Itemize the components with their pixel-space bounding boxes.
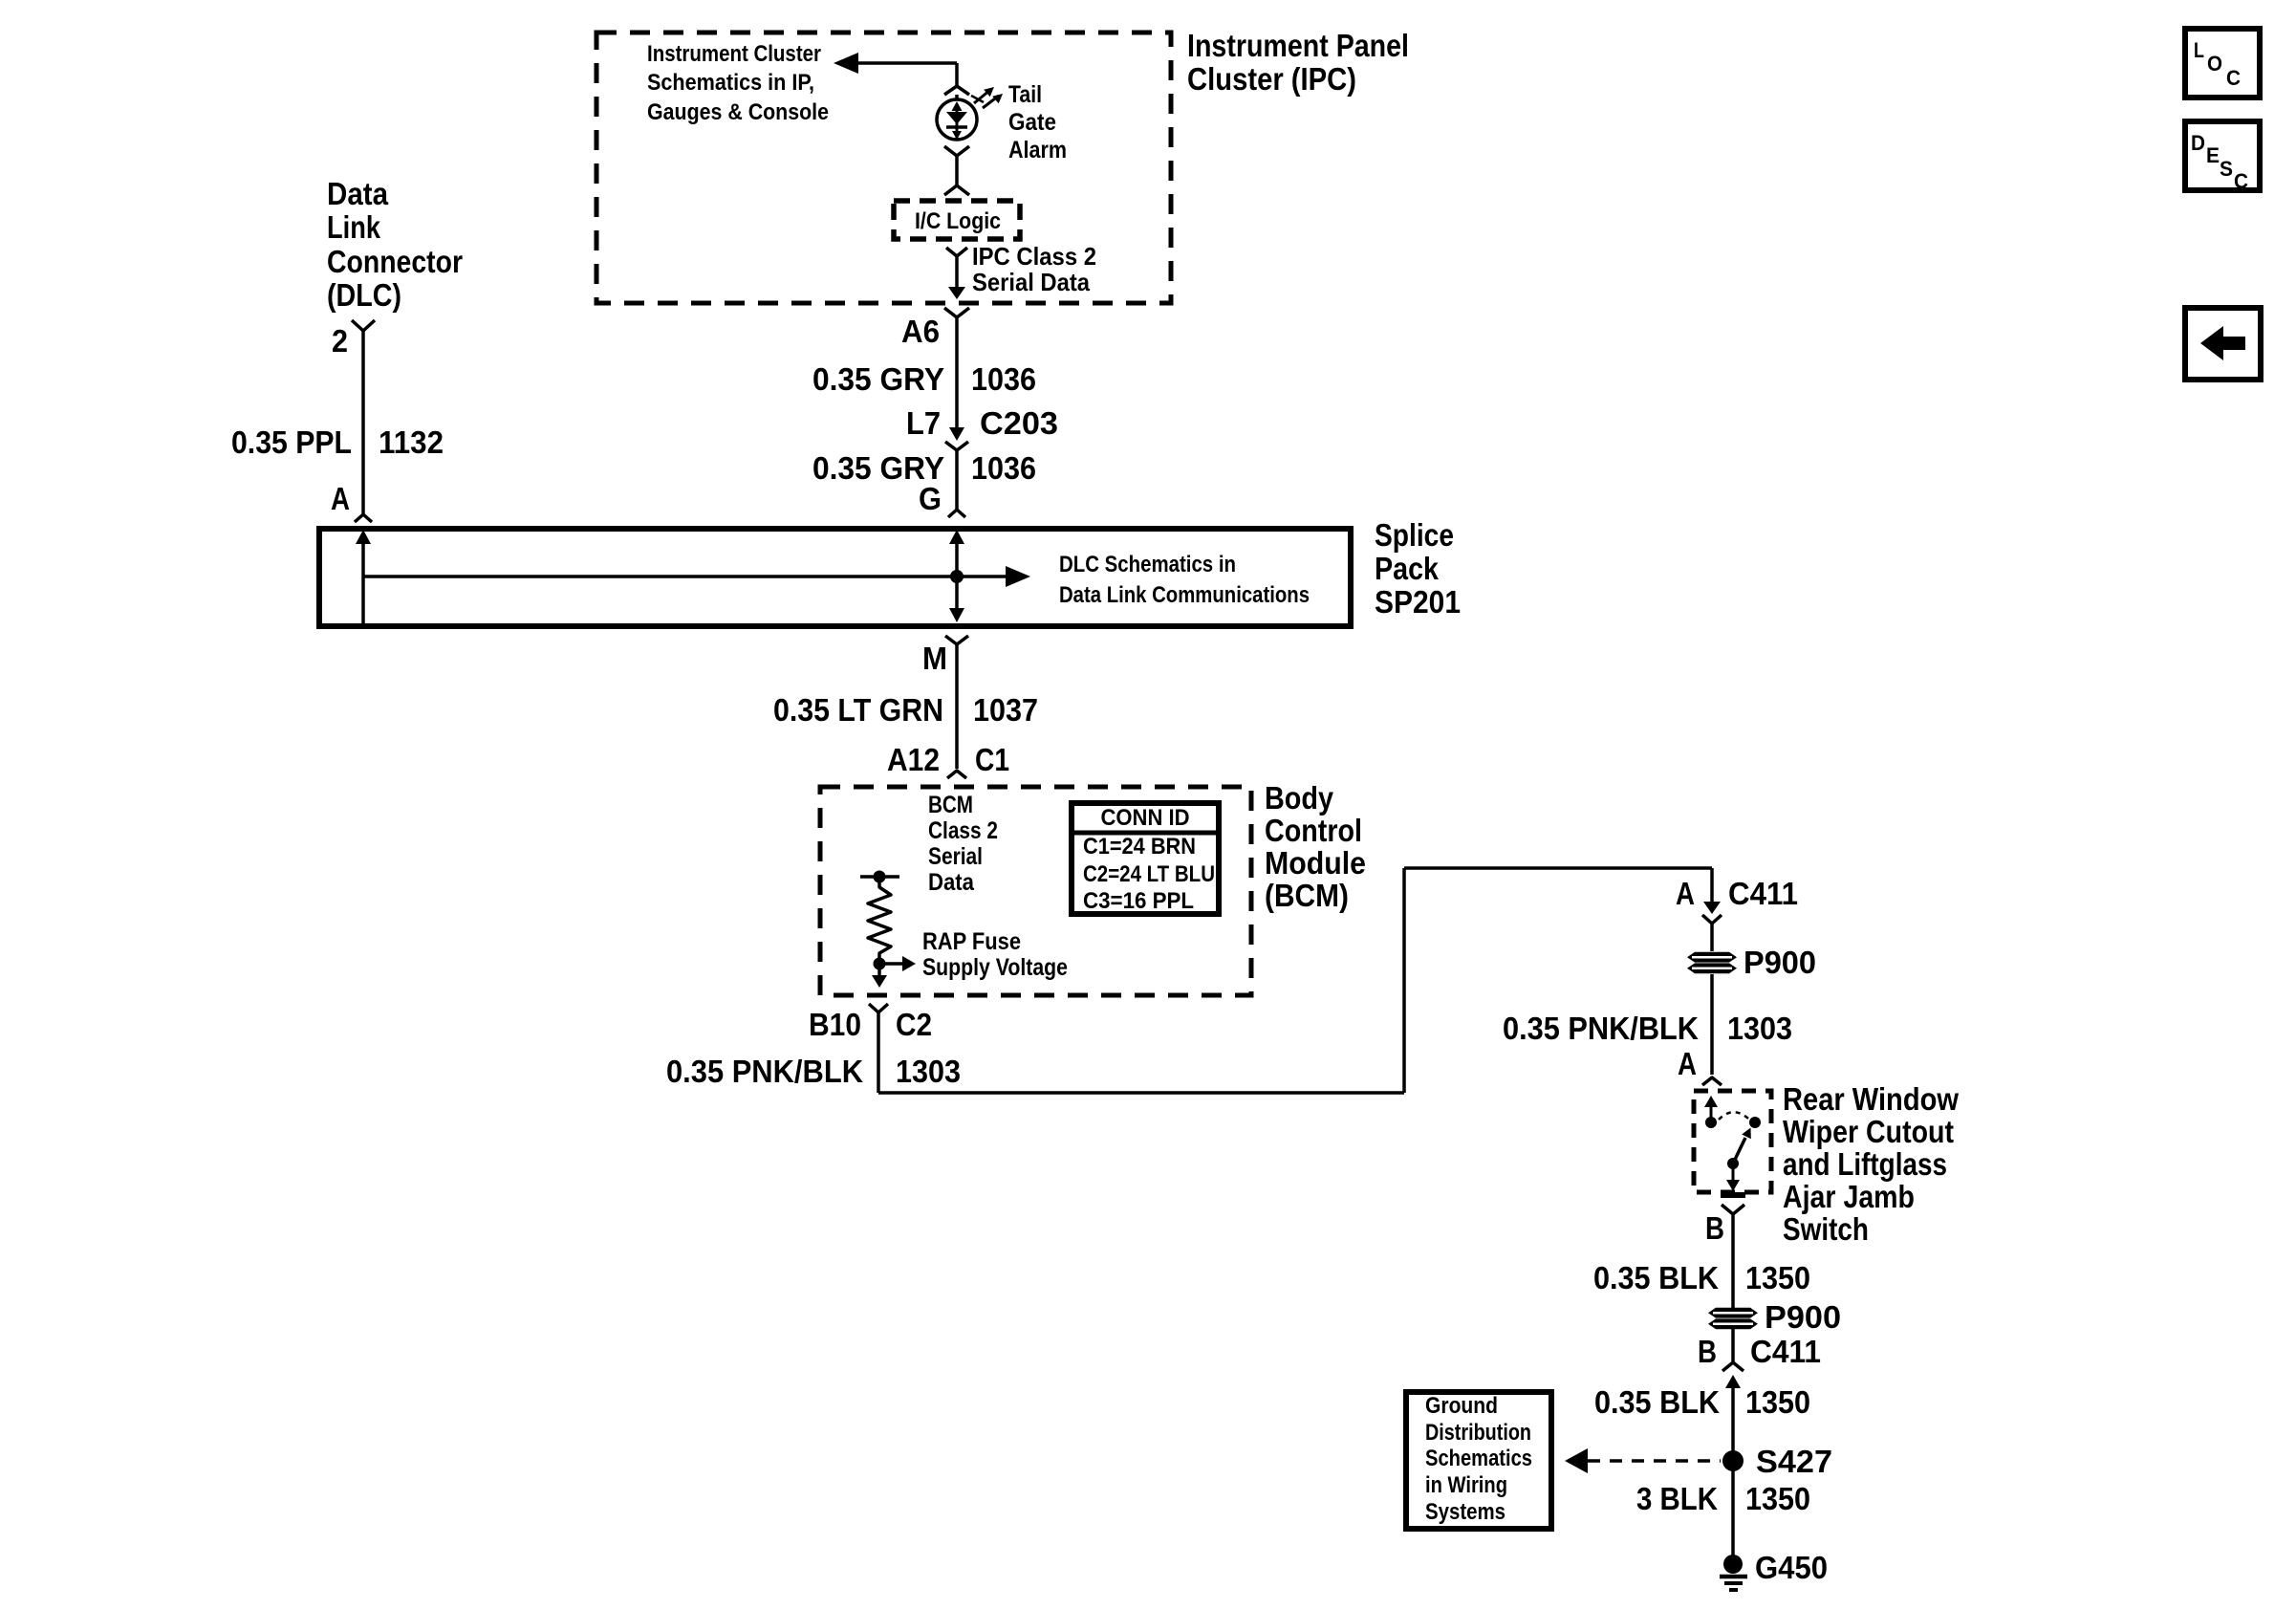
svg-text:C203: C203 [980, 405, 1058, 441]
svg-text:C: C [2234, 169, 2248, 193]
svg-text:Splice: Splice [1375, 517, 1454, 553]
svg-text:1303: 1303 [1727, 1011, 1792, 1046]
svg-text:DLC Schematics in: DLC Schematics in [1059, 552, 1236, 577]
svg-text:S: S [2220, 157, 2233, 181]
svg-text:1036: 1036 [971, 361, 1036, 397]
svg-text:Schematics: Schematics [1425, 1446, 1532, 1471]
svg-text:G450: G450 [1755, 1550, 1828, 1585]
svg-text:Module: Module [1265, 845, 1366, 881]
svg-text:Link: Link [327, 209, 381, 245]
svg-text:Data Link Communications: Data Link Communications [1059, 582, 1310, 608]
svg-text:IPC Class 2: IPC Class 2 [972, 242, 1096, 271]
svg-text:M: M [922, 641, 947, 676]
svg-text:C411: C411 [1750, 1334, 1821, 1369]
svg-text:Ajar Jamb: Ajar Jamb [1783, 1179, 1915, 1214]
svg-text:Instrument Panel: Instrument Panel [1187, 28, 1409, 63]
svg-text:1350: 1350 [1745, 1260, 1810, 1295]
svg-text:G: G [919, 481, 942, 516]
svg-text:1350: 1350 [1745, 1481, 1810, 1516]
svg-text:Pack: Pack [1375, 551, 1440, 586]
svg-text:BCM: BCM [928, 792, 973, 818]
svg-text:Distribution: Distribution [1425, 1420, 1531, 1446]
svg-text:Cluster (IPC): Cluster (IPC) [1187, 61, 1356, 97]
svg-text:C1=24 BRN: C1=24 BRN [1083, 834, 1196, 859]
svg-text:A12: A12 [887, 742, 940, 777]
svg-text:A6: A6 [901, 314, 940, 349]
svg-text:in Wiring: in Wiring [1425, 1472, 1507, 1498]
svg-text:1350: 1350 [1745, 1384, 1810, 1420]
svg-text:Serial: Serial [928, 843, 983, 870]
svg-text:D: D [2191, 131, 2205, 155]
svg-text:2: 2 [332, 323, 348, 359]
svg-text:Instrument Cluster: Instrument Cluster [647, 41, 821, 67]
svg-text:Serial Data: Serial Data [972, 268, 1090, 296]
svg-text:O: O [2207, 52, 2222, 76]
svg-text:0.35 BLK: 0.35 BLK [1593, 1260, 1719, 1295]
svg-text:B: B [1698, 1334, 1717, 1369]
svg-text:A: A [1678, 1046, 1697, 1081]
svg-text:Rear Window: Rear Window [1783, 1081, 1959, 1117]
svg-text:Control: Control [1265, 813, 1362, 848]
svg-text:Switch: Switch [1783, 1211, 1869, 1247]
svg-text:0.35 LT GRN: 0.35 LT GRN [773, 692, 943, 728]
svg-text:C2=24 LT BLU: C2=24 LT BLU [1083, 861, 1215, 887]
svg-text:Gate: Gate [1008, 109, 1056, 136]
svg-text:Gauges & Console: Gauges & Console [647, 99, 829, 125]
svg-text:P900: P900 [1765, 1299, 1841, 1335]
svg-text:CONN ID: CONN ID [1101, 805, 1190, 831]
svg-text:C411: C411 [1728, 876, 1798, 911]
svg-text:1036: 1036 [971, 450, 1036, 486]
svg-text:0.35 PNK/BLK: 0.35 PNK/BLK [1503, 1011, 1699, 1046]
svg-text:1037: 1037 [973, 692, 1038, 728]
svg-text:L: L [2194, 38, 2204, 62]
svg-text:and Liftglass: and Liftglass [1783, 1146, 1947, 1182]
svg-text:3 BLK: 3 BLK [1636, 1481, 1718, 1516]
svg-text:C3=16 PPL: C3=16 PPL [1083, 888, 1194, 914]
svg-text:Data: Data [327, 176, 389, 211]
svg-text:S427: S427 [1756, 1444, 1832, 1479]
svg-text:C: C [2226, 66, 2241, 90]
svg-text:Supply Voltage: Supply Voltage [922, 954, 1068, 981]
svg-text:C1: C1 [975, 742, 1009, 777]
svg-text:(BCM): (BCM) [1265, 878, 1349, 913]
svg-text:0.35 PNK/BLK: 0.35 PNK/BLK [666, 1054, 863, 1089]
svg-text:1303: 1303 [896, 1054, 961, 1089]
svg-text:SP201: SP201 [1375, 584, 1461, 620]
svg-text:Alarm: Alarm [1008, 137, 1067, 163]
svg-text:0.35 GRY: 0.35 GRY [812, 361, 944, 397]
svg-text:0.35 PPL: 0.35 PPL [231, 424, 352, 460]
svg-text:Data: Data [928, 869, 975, 896]
svg-text:B: B [1705, 1210, 1724, 1246]
svg-text:Body: Body [1265, 780, 1334, 816]
svg-text:Class 2: Class 2 [928, 817, 998, 844]
svg-text:I/C Logic: I/C Logic [915, 208, 1001, 234]
svg-text:P900: P900 [1744, 945, 1816, 980]
svg-text:Connector: Connector [327, 244, 463, 279]
svg-text:L7: L7 [906, 405, 941, 441]
svg-text:Wiper Cutout: Wiper Cutout [1783, 1114, 1954, 1149]
svg-text:E: E [2206, 143, 2220, 167]
svg-text:Systems: Systems [1425, 1499, 1505, 1525]
svg-text:B10: B10 [809, 1007, 861, 1042]
svg-text:1132: 1132 [379, 424, 444, 460]
svg-text:(DLC): (DLC) [327, 277, 401, 313]
svg-text:A: A [331, 481, 350, 516]
svg-text:Tail: Tail [1008, 81, 1042, 108]
svg-text:Ground: Ground [1425, 1393, 1498, 1419]
svg-text:0.35 BLK: 0.35 BLK [1594, 1384, 1720, 1420]
svg-text:C2: C2 [896, 1007, 932, 1042]
svg-text:RAP Fuse: RAP Fuse [922, 928, 1021, 955]
svg-text:Schematics in IP,: Schematics in IP, [647, 70, 814, 96]
svg-text:A: A [1676, 876, 1695, 911]
